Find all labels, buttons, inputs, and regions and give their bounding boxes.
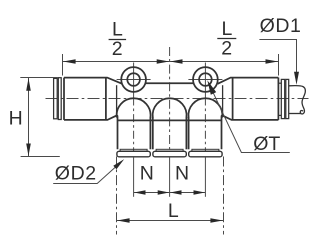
port 3 washer xyxy=(192,149,219,151)
fitting body: bottom edge continuing across ports xyxy=(117,119,222,121)
svg-text:2: 2 xyxy=(221,38,232,60)
fitting body: port 3 barrel edge inside body xyxy=(222,85,224,114)
port 1 right wall xyxy=(149,117,151,149)
N extension line port 1 xyxy=(133,157,135,197)
L extension line left (dash-dot) xyxy=(116,157,118,235)
port 1 dome xyxy=(117,98,151,117)
N dimension line 1 xyxy=(134,192,170,194)
port 2 release collet ring xyxy=(153,151,186,157)
boss circle 2 inner xyxy=(199,73,212,86)
port 2 left wall xyxy=(152,117,154,149)
L/2 right dimension line xyxy=(170,61,279,63)
node: port 3 vertical centerline xyxy=(204,63,206,98)
boss circle 1 outer xyxy=(121,67,146,92)
fitting body: bottom edge right with cusp into port 3 xyxy=(221,115,278,149)
tube inserted at right end, top edge xyxy=(289,85,301,87)
fitting body: left seam line xyxy=(105,78,107,120)
wire: main horizontal centerline xyxy=(46,98,309,100)
port 1 release collet ring xyxy=(117,151,150,157)
node: port 2 vertical centerline xyxy=(169,47,171,157)
port 3 left wall xyxy=(188,117,190,149)
port 2 right wall xyxy=(185,117,187,149)
OD1 leader xyxy=(259,40,296,73)
port 3 dome xyxy=(188,98,222,117)
svg-text:H: H xyxy=(9,107,23,129)
fitting body: right end face xyxy=(277,78,279,120)
svg-text:2: 2 xyxy=(112,38,123,60)
port 2 washer xyxy=(156,149,183,151)
OD2 leader xyxy=(53,167,116,184)
left cap ring xyxy=(58,78,61,120)
H dimension line xyxy=(28,78,30,156)
svg-text:L: L xyxy=(168,200,179,222)
node: port 1 vertical centerline xyxy=(133,63,135,98)
H dimension bottom extension xyxy=(21,156,60,158)
tube bottom edge xyxy=(289,113,302,115)
N extension line port 3 xyxy=(204,157,206,197)
boss circle 2 outer xyxy=(193,67,218,92)
fitting body: top chord between bosses xyxy=(145,82,193,84)
right cap ring xyxy=(281,79,284,118)
OT leader xyxy=(209,85,289,153)
fitting body: top edge left xyxy=(64,78,122,84)
H dimension top extension xyxy=(20,77,58,79)
svg-text:N: N xyxy=(175,162,189,184)
svg-text:ØD2: ØD2 xyxy=(55,162,97,184)
L/2 left dimension line xyxy=(63,61,170,63)
svg-text:N: N xyxy=(140,162,154,184)
L/2 right extension line xyxy=(278,54,280,76)
node: boss circle 1 horizontal centermark xyxy=(117,79,151,81)
fitting body: top edge right xyxy=(218,78,279,84)
port 3 release collet ring xyxy=(189,151,222,157)
boss circle 1 inner xyxy=(127,73,140,86)
tube break squiggle xyxy=(300,86,305,114)
svg-text:ØD1: ØD1 xyxy=(260,15,302,37)
port 1 washer xyxy=(120,149,147,151)
right neck top line xyxy=(278,82,281,84)
fitting body: bottom edge left with cusp into port 1 xyxy=(64,115,118,149)
L extension line right (dash-dot) xyxy=(223,157,225,235)
N dimension line 2 xyxy=(170,192,206,194)
N extension line port 2 xyxy=(169,157,171,197)
node: boss circle 2 horizontal centermark xyxy=(188,79,222,81)
right neck bottom line xyxy=(278,114,281,116)
fitting body: port 1 barrel edge inside body xyxy=(116,85,118,114)
right release collet ring xyxy=(286,79,289,118)
L dimension line xyxy=(117,220,224,222)
left release collet ring xyxy=(54,78,58,118)
fitting body: left end face xyxy=(63,78,65,120)
svg-text:ØT: ØT xyxy=(253,133,280,155)
L/2 left extension line xyxy=(62,54,64,76)
fitting body: right seam line xyxy=(232,78,234,120)
port 2 dome xyxy=(153,98,187,117)
